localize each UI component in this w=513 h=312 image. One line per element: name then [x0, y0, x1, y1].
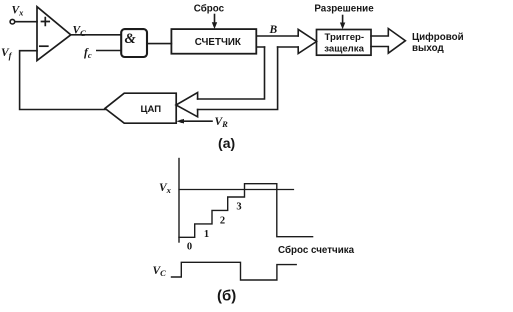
svg-text:ЦАП: ЦАП	[141, 104, 162, 115]
wire feedback Vf from - input down to DAC output	[20, 51, 105, 110]
staircase DAC waveform	[179, 184, 313, 238]
counter box	[171, 29, 256, 54]
svg-text:fc: fc	[84, 47, 92, 60]
minus sign	[40, 45, 48, 47]
svg-text:защелка: защелка	[324, 43, 364, 54]
svg-text:Vx: Vx	[12, 4, 25, 17]
DAC input arrow head	[176, 93, 198, 117]
output arrow from latch	[371, 29, 405, 54]
svg-text:Разрешение: Разрешение	[314, 4, 374, 15]
svg-text:2: 2	[220, 215, 225, 226]
latch input arrow head	[298, 29, 316, 53]
wire comparator output to AND gate	[71, 34, 121, 36]
reset arrow into counter	[214, 15, 216, 24]
bus B counter to latch arrow	[256, 36, 298, 47]
waveform VC	[172, 262, 297, 280]
svg-text:Сброс счетчика: Сброс счетчика	[278, 245, 355, 256]
bus branch down to DAC	[198, 47, 278, 110]
svg-text:VR: VR	[215, 116, 229, 129]
svg-text:Триггер-: Триггер-	[324, 32, 364, 43]
wire fc to AND gate	[97, 50, 121, 52]
graph axis	[178, 159, 180, 243]
svg-text:Цифровой: Цифровой	[412, 32, 464, 43]
terminal Vx input	[10, 19, 15, 24]
svg-text:B: B	[269, 24, 278, 36]
svg-text:Vf: Vf	[1, 47, 13, 60]
DAC U2 block ЦАП	[105, 93, 176, 123]
wire Vx to comparator + input	[15, 21, 37, 23]
svg-text:Сброс: Сброс	[194, 3, 225, 14]
op-amp U1 comparator	[37, 7, 71, 61]
AND gate G1	[121, 29, 147, 57]
wire AND gate to counter	[147, 43, 171, 45]
svg-text:(а): (а)	[218, 135, 235, 151]
svg-text:3: 3	[236, 201, 241, 212]
svg-text:1: 1	[204, 229, 209, 240]
svg-text:&: &	[125, 31, 137, 47]
svg-text:0: 0	[187, 242, 192, 253]
plus sign	[42, 18, 50, 26]
Vx level line	[179, 189, 294, 191]
svg-text:СЧЕТЧИК: СЧЕТЧИК	[195, 37, 241, 48]
VR reference arrow into DAC	[180, 120, 212, 122]
svg-text:(б): (б)	[217, 288, 236, 305]
svg-text:VC: VC	[73, 25, 87, 38]
svg-text:выход: выход	[412, 43, 444, 54]
latch box	[317, 30, 372, 56]
svg-text:Vx: Vx	[159, 182, 172, 195]
enable arrow into latch	[342, 16, 344, 24]
svg-text:VC: VC	[153, 265, 167, 278]
